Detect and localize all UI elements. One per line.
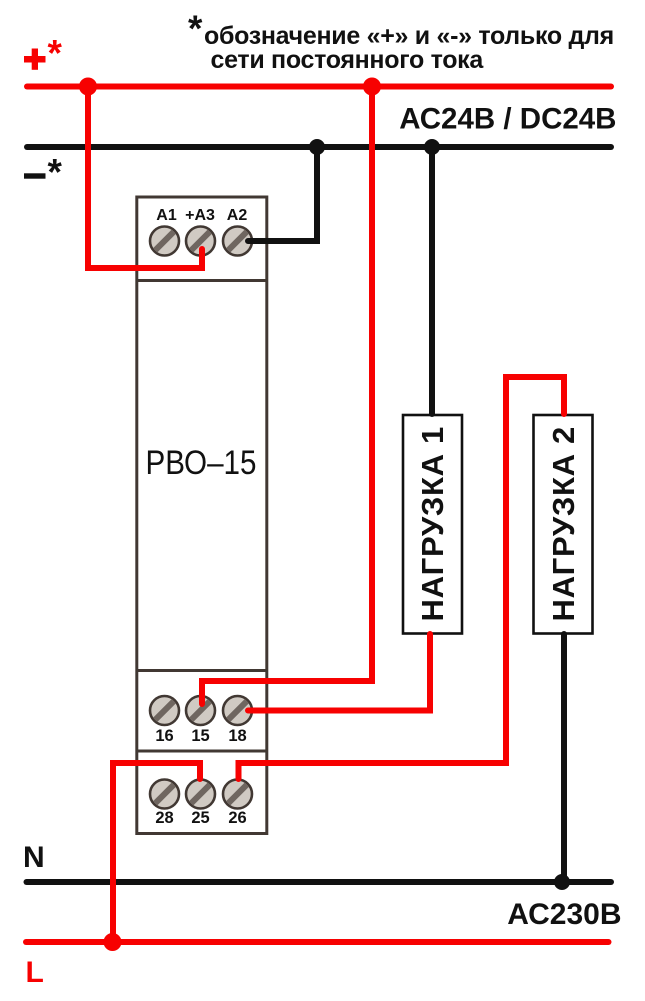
- minus terminal label: [24, 152, 63, 193]
- svg-text:НАГРУЗКА 2: НАГРУЗКА 2: [546, 426, 581, 621]
- terminal +A3: [186, 227, 215, 256]
- node +24V bus (red): [27, 84, 611, 90]
- wire red: pin 26 to load2 top: [239, 377, 565, 779]
- svg-text:А1: А1: [156, 207, 177, 224]
- junction dot black on -bus at A2 wire: [309, 139, 325, 155]
- junction dot black on N bus: [554, 874, 570, 890]
- wire black: load2 bottom to N bus: [561, 634, 567, 882]
- terminal A2: [223, 227, 252, 256]
- wire red: L bus to pin 25: [113, 763, 200, 942]
- wire black: A2 to -bus: [248, 147, 317, 241]
- node L bus (red): [26, 939, 609, 945]
- svg-text:А2: А2: [227, 207, 248, 224]
- svg-text:АС230В: АС230В: [507, 898, 621, 931]
- svg-text:НАГРУЗКА 1: НАГРУЗКА 1: [415, 426, 450, 621]
- node N bus (black): [27, 879, 612, 885]
- plus terminal label: [24, 33, 63, 74]
- wire black: -bus to load1 top: [429, 147, 435, 414]
- terminal 25: [186, 780, 215, 809]
- svg-text:*: *: [188, 8, 203, 49]
- load box NAGRUZKA 1: [403, 415, 462, 634]
- relay module PBO-15 body: [137, 197, 267, 834]
- svg-text:АС24В / DC24В: АС24В / DC24В: [399, 103, 616, 136]
- terminal 16: [150, 696, 179, 725]
- svg-text:РВО–15: РВО–15: [146, 444, 257, 482]
- svg-text:16: 16: [155, 727, 173, 745]
- node -24V bus (black): [27, 144, 611, 150]
- svg-text:сети постоянного тока: сети постоянного тока: [211, 46, 485, 74]
- terminal 15: [186, 696, 215, 725]
- svg-text:25: 25: [191, 809, 209, 827]
- wire red: pin 18 to load1 bottom: [248, 634, 430, 711]
- note text: [188, 8, 614, 74]
- junction dot red on +bus left: [79, 78, 97, 96]
- terminal 26: [223, 780, 252, 809]
- svg-text:*: *: [48, 152, 63, 193]
- svg-text:L: L: [26, 956, 44, 989]
- svg-text:18: 18: [228, 727, 246, 745]
- svg-text:26: 26: [228, 809, 246, 827]
- wire red: +bus to pin 15: [202, 86, 372, 704]
- junction dot red on +bus mid: [363, 78, 381, 96]
- terminal 18: [223, 696, 252, 725]
- junction dot black on -bus at load1 wire: [424, 139, 440, 155]
- load box NAGRUZKA 2: [534, 415, 593, 634]
- svg-text:N: N: [23, 841, 45, 874]
- junction dot red on L bus: [104, 933, 122, 951]
- terminal 28: [150, 780, 179, 809]
- svg-text:+А3: +А3: [185, 207, 215, 224]
- wire red: +bus to +A3: [88, 86, 202, 268]
- terminal A1: [150, 227, 179, 256]
- svg-text:15: 15: [191, 727, 209, 745]
- svg-text:*: *: [48, 33, 63, 74]
- svg-text:28: 28: [155, 809, 173, 827]
